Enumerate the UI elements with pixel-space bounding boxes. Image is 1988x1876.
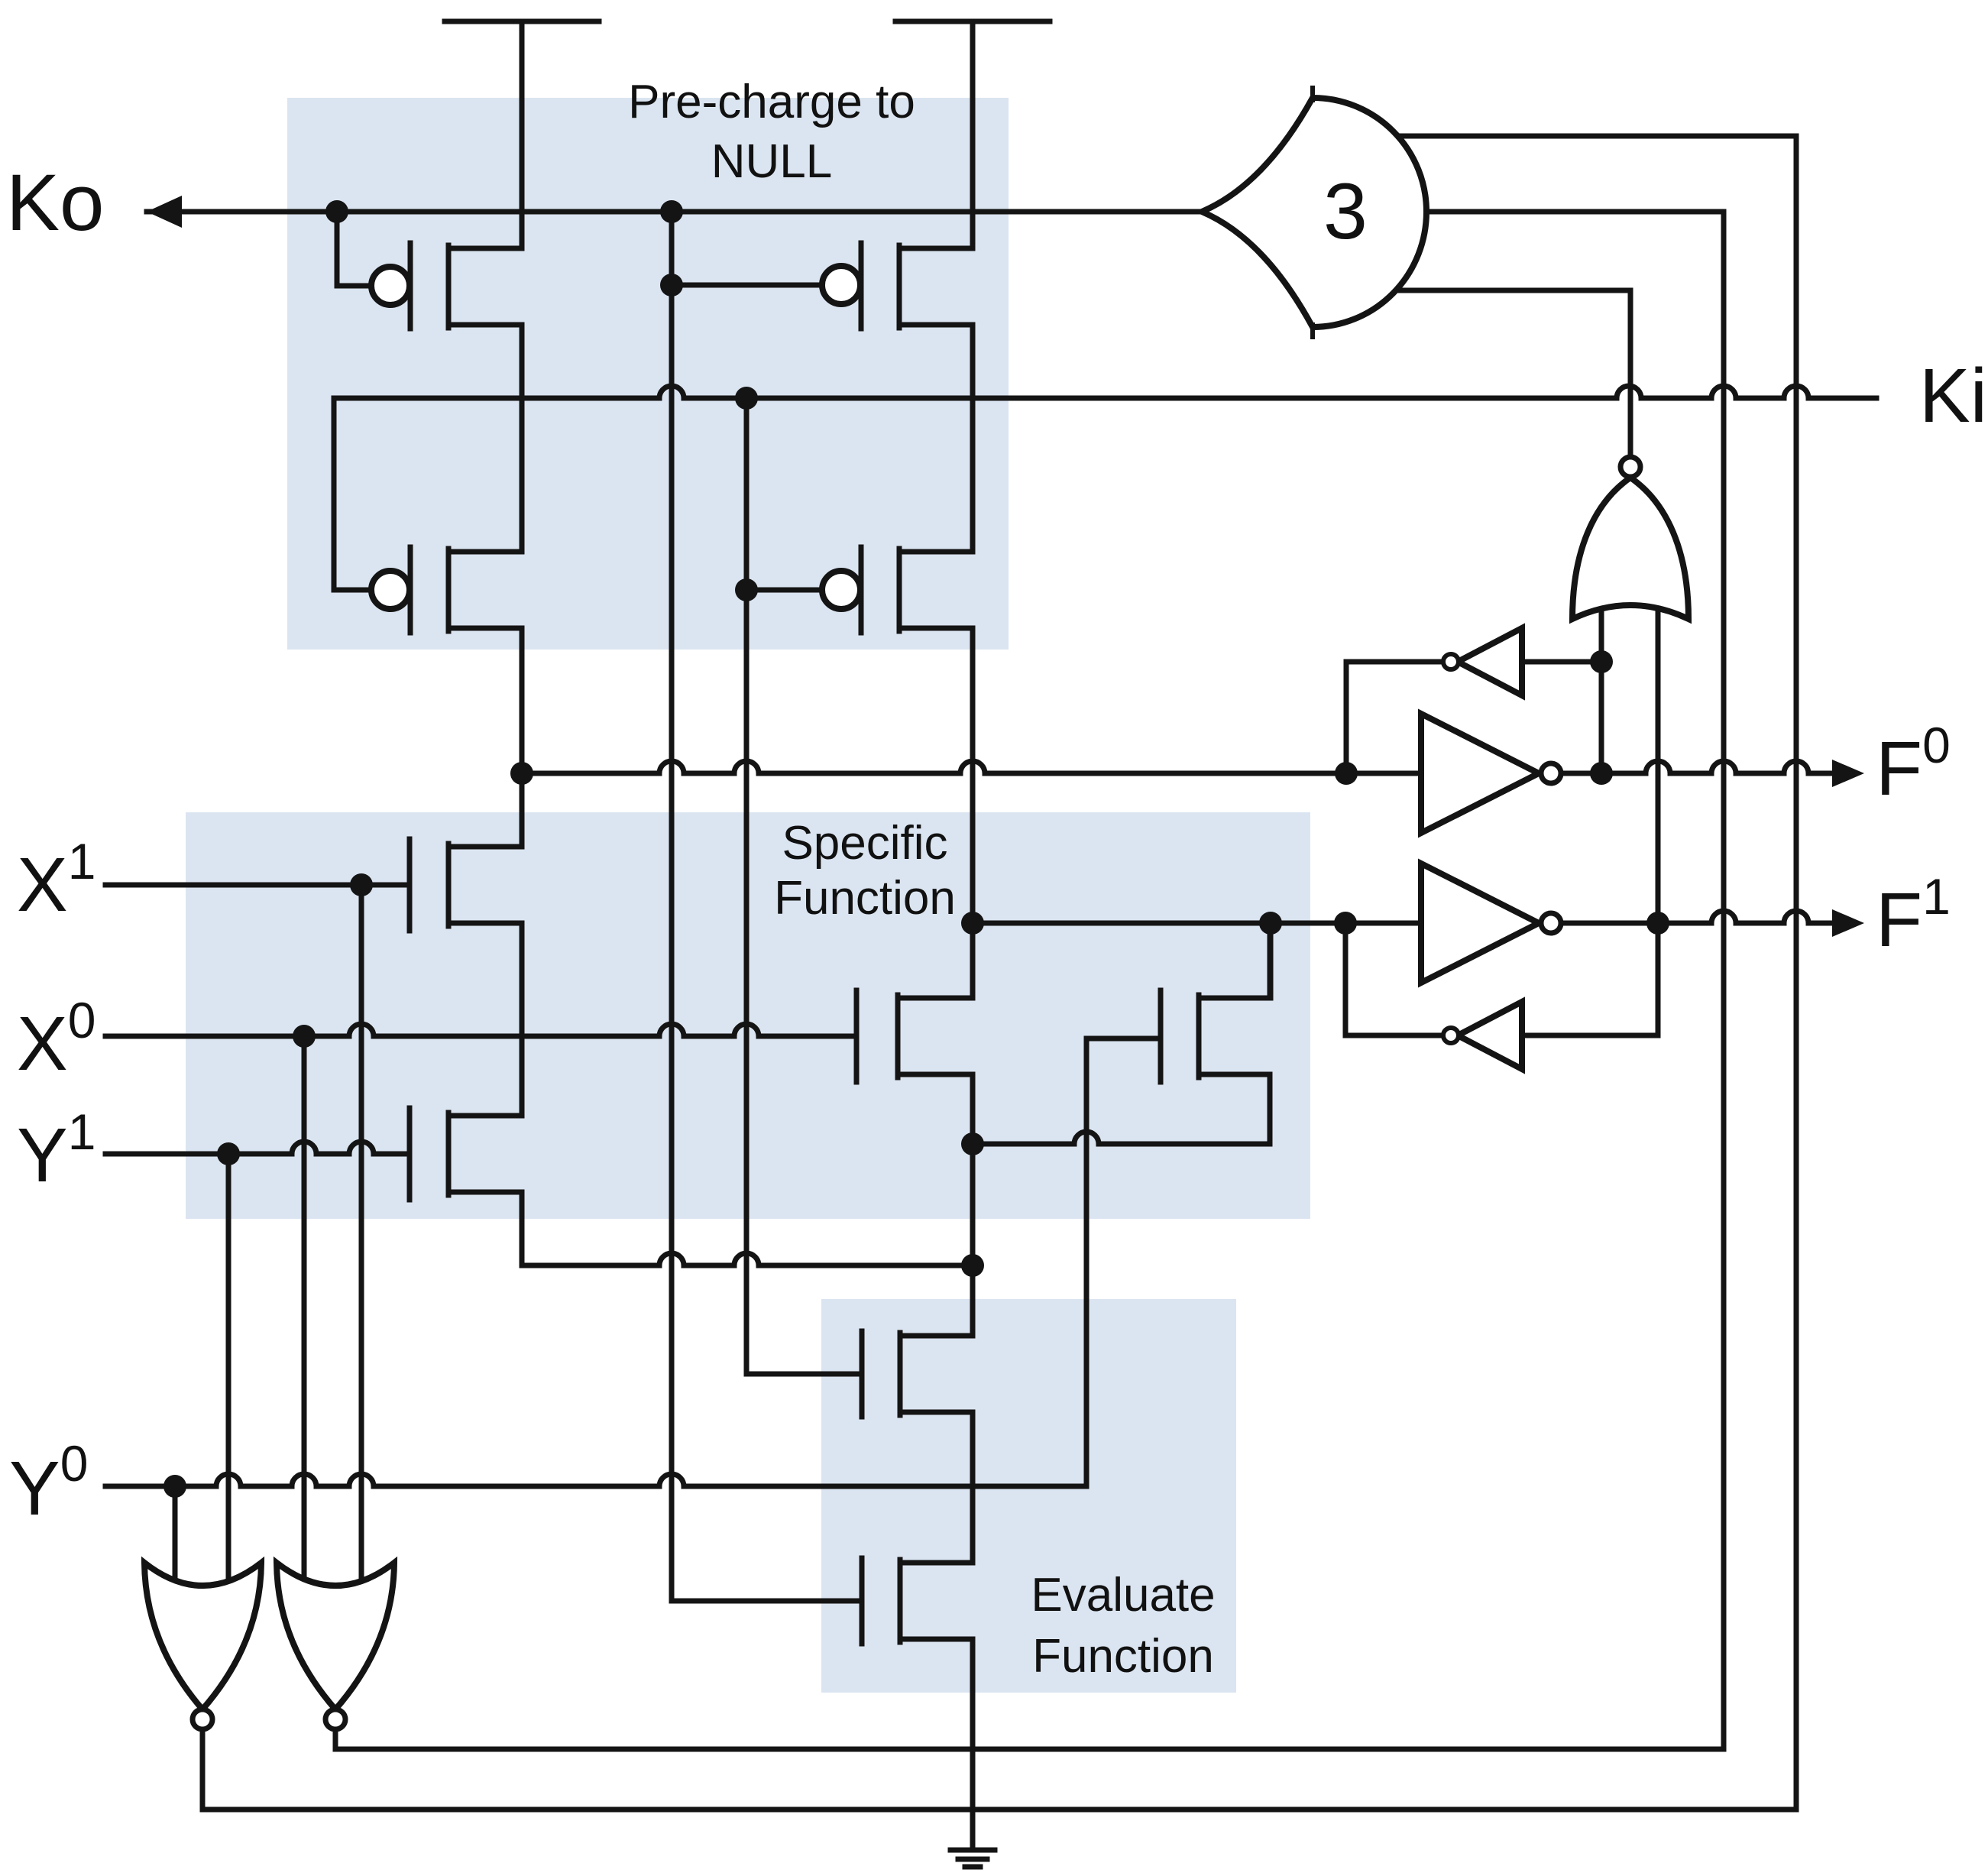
svg-text:Specific: Specific xyxy=(782,817,947,870)
wire TH3 input 1 from NOR U7 xyxy=(202,136,1796,1810)
transistor M4 channel and arms xyxy=(861,547,973,633)
inverter U3 bubble xyxy=(1541,913,1561,933)
wire TH3 input 2 from NOR U8 xyxy=(335,212,1724,1749)
wire VDD2 column M2-M4 xyxy=(970,325,976,552)
junction F0 NOR tap xyxy=(1590,762,1613,785)
wire M3 drain to F0 node xyxy=(520,628,525,847)
wire X1 input line xyxy=(105,883,410,888)
junction Y1 stub xyxy=(217,1142,240,1165)
junction Ko-M1 xyxy=(325,200,348,223)
wire M4 gate branch xyxy=(746,398,822,590)
wire X0 gate stub to NOR gate xyxy=(302,1036,307,1583)
wire Ko dot1 to M1 gate xyxy=(337,212,371,286)
specific function region box xyxy=(186,812,1310,1219)
arrow F1 xyxy=(1832,909,1864,937)
svg-text:Function: Function xyxy=(1032,1630,1214,1683)
wire VDD1 column M1-M3 xyxy=(520,325,525,552)
wire Ki line xyxy=(334,386,1876,590)
wire TH3 input 3 from NOR U6 xyxy=(1375,290,1630,457)
inverter U5 keeper body xyxy=(1458,1002,1522,1069)
junction M7-M8 node xyxy=(961,1132,984,1155)
junction M4 gate xyxy=(735,578,758,601)
junction keeper0 input xyxy=(1590,650,1613,673)
wire F0 internal node line xyxy=(522,761,1421,773)
wire F1 output line xyxy=(1561,911,1834,923)
wire M2 gate branch xyxy=(672,212,822,285)
junction X0 stub xyxy=(293,1025,316,1048)
arrow Ko xyxy=(147,196,182,228)
svg-text:Ki: Ki xyxy=(1919,353,1987,439)
transistor M10 channel and arms xyxy=(862,1558,973,1644)
junction F1 node left xyxy=(961,912,984,935)
wire F0 keeper output to F0 node xyxy=(1346,662,1451,773)
svg-text:NULL: NULL xyxy=(711,135,833,188)
transistor M1 channel and arms xyxy=(410,243,522,329)
wire M6 drain to evaluate node xyxy=(522,1192,973,1265)
wire M4 drain down to F1 node and M7 xyxy=(970,628,976,998)
transistor M1 gate circle xyxy=(371,267,410,305)
inverter U3 body xyxy=(1421,863,1539,983)
junction Ki-M9 column xyxy=(735,387,758,410)
arrow F0 xyxy=(1832,760,1864,787)
junction X1 stub xyxy=(350,873,373,896)
ground xyxy=(950,1850,995,1867)
transistor M2 gate circle xyxy=(822,266,860,304)
wire M5-M6 series xyxy=(520,923,525,1116)
wire M8 drain to F1 node xyxy=(1268,923,1274,998)
evaluate function region box xyxy=(821,1299,1236,1693)
wire X1 gate stub to NOR gate xyxy=(359,885,364,1583)
junction M8 drain tap xyxy=(1259,912,1282,935)
VDD rail 1 xyxy=(445,21,599,248)
NOR gate U7 body xyxy=(144,1563,261,1709)
transistor M4 gate circle xyxy=(822,571,860,609)
wire Y0 gate stub to NOR gate xyxy=(173,1486,178,1583)
transistor M6 channel and arms xyxy=(410,1108,522,1200)
wire F0 keeper input xyxy=(1522,659,1601,665)
wire Ko line xyxy=(147,209,1211,215)
wire M10 gate lead from Ko column xyxy=(672,212,862,1601)
junction Y0 stub xyxy=(164,1475,186,1498)
inverter U2 body xyxy=(1421,714,1539,833)
NOR gate U7 bubble xyxy=(193,1709,212,1729)
transistor M2 channel and arms xyxy=(861,243,973,329)
NOR gate U8 body xyxy=(277,1563,394,1709)
junction F1 keeper tap xyxy=(1334,912,1357,935)
wire Y0 input line xyxy=(105,1038,1161,1486)
NOR gate U6 bubble xyxy=(1621,457,1640,477)
wire F1 keeper output to F1 node xyxy=(1345,923,1451,1035)
wire M9-M10 series xyxy=(970,1412,976,1563)
wire M7 drain node line xyxy=(970,1074,976,1336)
wire F0 output line xyxy=(1561,761,1834,773)
NOR gate U8 bubble xyxy=(325,1709,345,1729)
svg-text:Evaluate: Evaluate xyxy=(1031,1569,1215,1622)
wire F1 keeper input xyxy=(1522,923,1658,1035)
junction F1 NOR tap xyxy=(1646,912,1669,935)
threshold gate U1 body xyxy=(1202,86,1426,339)
wire Y1 input line xyxy=(105,1142,410,1154)
wire Y1 gate stub to NOR gate xyxy=(226,1154,232,1583)
wire M7-M8 shared node xyxy=(973,1132,1270,1144)
pre-charge to NULL region box xyxy=(287,98,1009,650)
svg-text:3: 3 xyxy=(1323,167,1368,256)
svg-text:Pre-charge to: Pre-charge to xyxy=(628,76,915,128)
junction evaluate node xyxy=(961,1254,984,1277)
junction F0 keeper tap xyxy=(1335,762,1358,785)
wire X0 input line xyxy=(105,1024,856,1036)
VDD rail 2 xyxy=(895,21,1050,248)
svg-text:Ko: Ko xyxy=(6,158,104,248)
transistor M7 channel and arms xyxy=(856,990,973,1082)
wire NOR U6 input F1b xyxy=(1656,611,1661,923)
junction F0 node left xyxy=(510,762,533,785)
transistor M3 gate circle xyxy=(371,571,410,609)
wire NOR U6 input F0b xyxy=(1599,611,1604,773)
svg-text:Function: Function xyxy=(774,872,956,925)
junction Ko-M10 column xyxy=(660,200,683,223)
wire M10 source to ground xyxy=(970,1639,976,1849)
wire F1 internal node line xyxy=(973,921,1421,926)
transistor M3 channel and arms xyxy=(410,547,522,633)
wire M9 gate lead xyxy=(746,398,862,1374)
transistor M8 channel and arms xyxy=(1161,923,1270,1144)
inverter U5 bubble xyxy=(1443,1028,1459,1043)
inverter U4 keeper body xyxy=(1458,628,1522,695)
transistor M9 channel and arms xyxy=(862,1331,973,1417)
inverter U2 bubble xyxy=(1541,763,1561,783)
NOR gate U6 body xyxy=(1572,478,1689,619)
transistor M5 channel and arms xyxy=(410,839,522,931)
inverter U4 bubble xyxy=(1443,654,1459,669)
junction M2 gate xyxy=(660,274,683,296)
